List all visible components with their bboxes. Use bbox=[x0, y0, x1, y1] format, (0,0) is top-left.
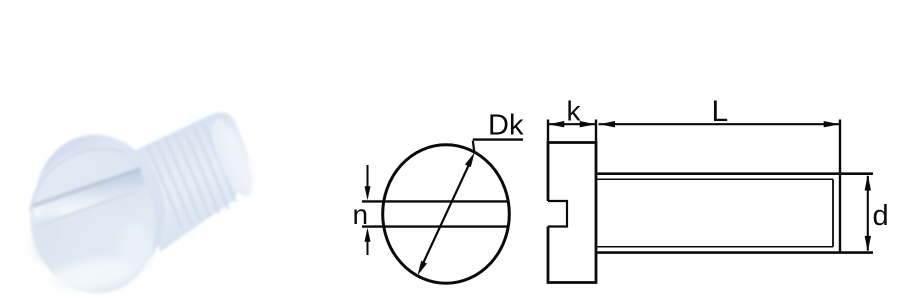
svg-text:L: L bbox=[712, 95, 729, 128]
svg-text:d: d bbox=[873, 200, 889, 232]
svg-text:Dk: Dk bbox=[488, 110, 524, 142]
svg-text:n: n bbox=[353, 199, 369, 230]
svg-text:k: k bbox=[567, 96, 582, 127]
